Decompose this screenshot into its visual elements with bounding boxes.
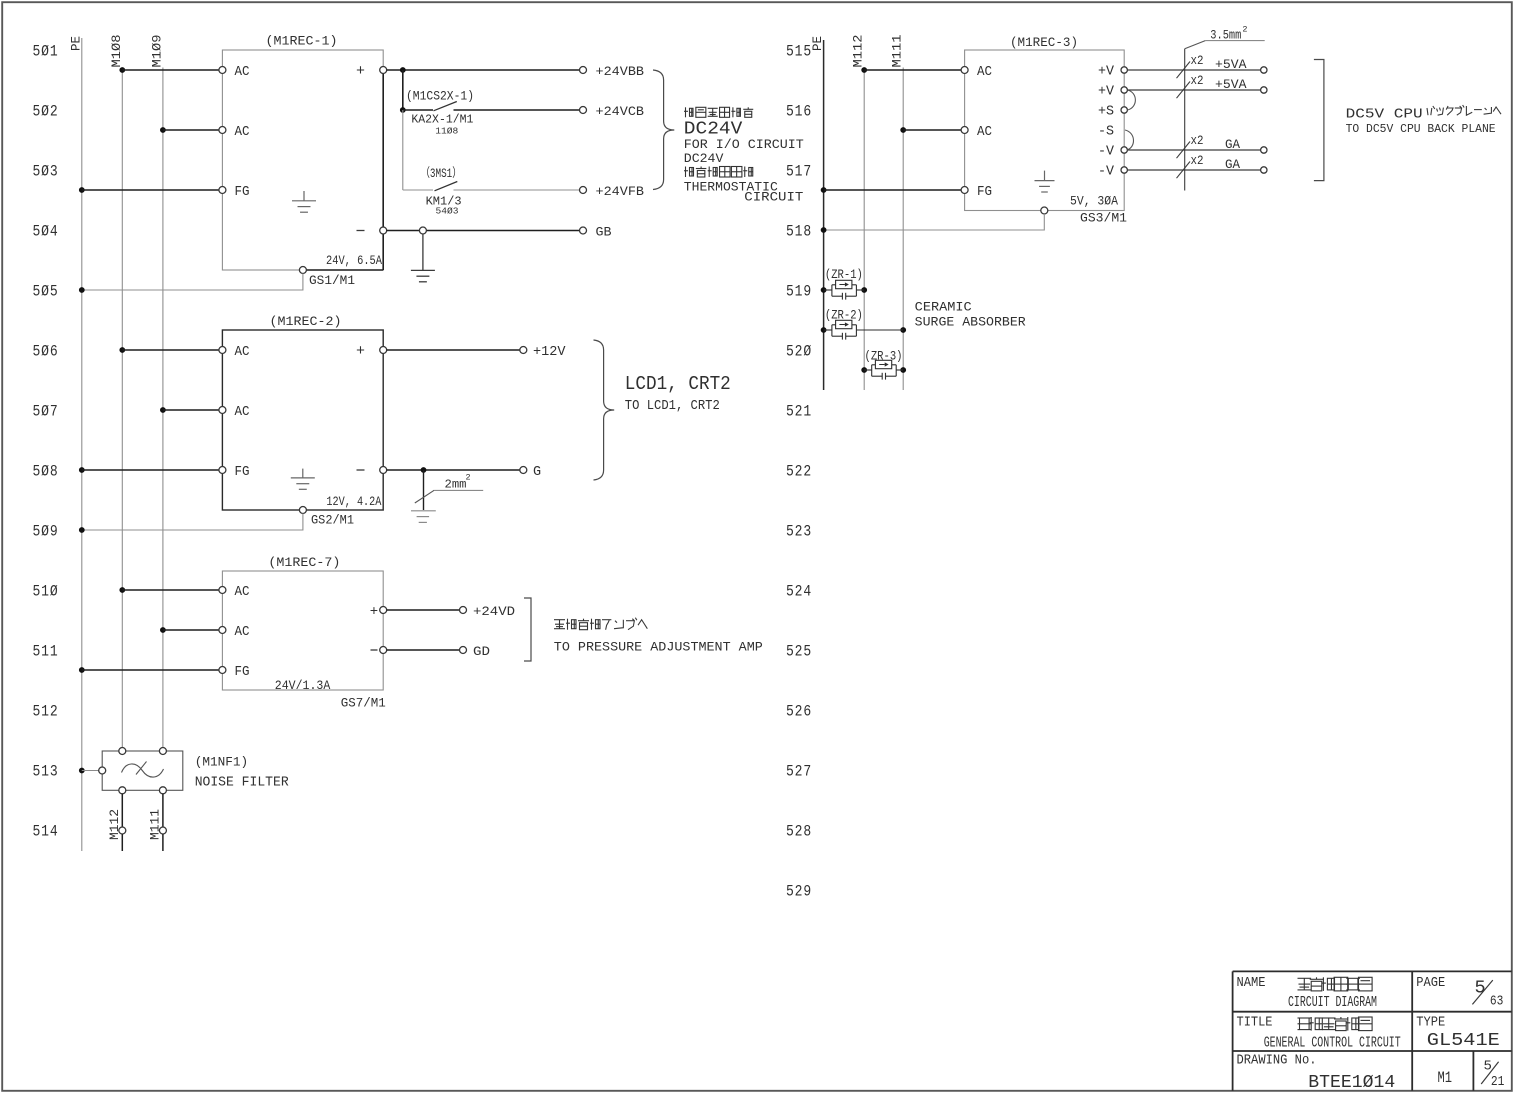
svg-text:NOISE FILTER: NOISE FILTER [195,776,289,791]
svg-text:+5VA: +5VA [1215,57,1247,72]
svg-text:521: 521 [786,403,812,421]
svg-text:TO PRESSURE ADJUSTMENT AMP: TO PRESSURE ADJUSTMENT AMP [554,640,763,655]
svg-text:GA: GA [1225,157,1240,172]
svg-text:AC: AC [235,345,250,360]
svg-text:526: 526 [786,703,812,721]
svg-text:（3MS1）: （3MS1） [421,166,462,181]
svg-text:5Ø8: 5Ø8 [33,463,59,481]
svg-text:AC: AC [235,625,250,640]
svg-text:5V, 3ØA: 5V, 3ØA [1070,194,1118,208]
svg-text:528: 528 [786,823,812,841]
svg-text:x2: x2 [1191,73,1204,88]
svg-text:525: 525 [786,643,812,661]
svg-text:5Ø9: 5Ø9 [33,523,59,541]
svg-text:AC: AC [977,65,992,80]
svg-text:PE: PE [69,36,83,51]
svg-text:+V: +V [1098,85,1115,100]
svg-text:-V: -V [1098,165,1115,180]
svg-text:512: 512 [33,703,59,721]
svg-text:x2: x2 [1191,53,1204,68]
svg-text:BTEE1Ø14: BTEE1Ø14 [1308,1073,1395,1093]
svg-text:M111: M111 [891,35,905,68]
svg-text:5Ø6: 5Ø6 [33,343,59,361]
svg-text:529: 529 [786,883,812,901]
svg-text:54Ø3: 54Ø3 [436,206,459,217]
svg-text:2mm: 2mm [445,478,467,492]
svg-text:(M1REC-3): (M1REC-3) [1010,35,1078,50]
svg-text:M1: M1 [1438,1069,1453,1087]
svg-text:2: 2 [466,473,471,483]
svg-text:AC: AC [235,65,250,80]
svg-text:5Ø3: 5Ø3 [33,163,59,181]
svg-text:+24VFB: +24VFB [596,184,645,199]
svg-text:523: 523 [786,523,812,541]
svg-text:DC24V: DC24V [684,151,724,166]
svg-text:5Ø1: 5Ø1 [33,43,59,61]
svg-text:GD: GD [473,645,490,659]
svg-text:DRAWING No.: DRAWING No. [1237,1054,1317,1069]
svg-text:GS1/M1: GS1/M1 [309,274,355,288]
svg-text:x2: x2 [1191,133,1204,148]
svg-text:SURGE ABSORBER: SURGE ABSORBER [915,315,1026,330]
svg-text:24V, 6.5A: 24V, 6.5A [326,254,382,268]
svg-text:517: 517 [786,163,812,181]
svg-text:518: 518 [786,223,812,241]
svg-text:FG: FG [977,185,992,200]
svg-text:TITLE: TITLE [1237,1016,1273,1031]
svg-text:63: 63 [1490,995,1504,1010]
svg-text:NAME: NAME [1237,976,1266,991]
svg-text:M111: M111 [148,809,162,840]
svg-text:M1Ø8: M1Ø8 [110,35,124,68]
svg-text:CIRCUIT DIAGRAM: CIRCUIT DIAGRAM [1288,995,1377,1011]
svg-text:(M1REC-7): (M1REC-7) [268,555,340,570]
svg-text:527: 527 [786,763,812,781]
svg-text:11Ø8: 11Ø8 [435,126,458,137]
svg-text:519: 519 [786,283,812,301]
svg-text:-V: -V [1098,145,1115,160]
svg-text:+5VA: +5VA [1215,77,1247,92]
svg-text:CIRCUIT: CIRCUIT [744,190,803,205]
svg-text:+24VCB: +24VCB [596,104,645,119]
svg-text:5Ø2: 5Ø2 [33,103,59,121]
svg-text:51Ø: 51Ø [33,583,59,601]
svg-text:515: 515 [786,43,812,61]
svg-text:M1Ø9: M1Ø9 [150,35,164,68]
svg-text:21: 21 [1491,1075,1505,1090]
svg-text:GA: GA [1225,137,1240,152]
svg-text:+V: +V [1098,65,1115,80]
svg-text:GS7/M1: GS7/M1 [341,697,386,711]
svg-text:FG: FG [235,465,250,480]
svg-text:5Ø5: 5Ø5 [33,283,59,301]
svg-text:5Ø7: 5Ø7 [33,403,59,421]
svg-text:+24VD: +24VD [473,605,515,619]
svg-text:24V/1.3A: 24V/1.3A [275,679,331,693]
svg-text:TO DC5V CPU BACK PLANE: TO DC5V CPU BACK PLANE [1346,123,1496,136]
svg-text:CERAMIC: CERAMIC [915,300,972,315]
svg-text:KA2X-1/M1: KA2X-1/M1 [411,113,473,127]
svg-text:AC: AC [235,585,250,600]
svg-text:DC5V CPU: DC5V CPU [1346,107,1423,123]
svg-text:+: + [356,63,365,80]
svg-text:PAGE: PAGE [1416,976,1445,991]
svg-text:516: 516 [786,103,812,121]
svg-text:GS2/M1: GS2/M1 [311,514,354,528]
svg-text:GENERAL CONTROL CIRCUIT: GENERAL CONTROL CIRCUIT [1264,1036,1401,1052]
svg-text:524: 524 [786,583,812,601]
svg-text:52Ø: 52Ø [786,343,812,361]
svg-text:(M1NF1): (M1NF1) [195,755,249,770]
svg-text:+S: +S [1098,105,1114,120]
svg-text:511: 511 [33,643,59,661]
svg-text:G: G [533,465,541,480]
svg-text:M112: M112 [852,35,866,68]
svg-text:FOR I/O CIRCUIT: FOR I/O CIRCUIT [684,137,804,152]
svg-text:(M1REC-1): (M1REC-1) [266,34,338,49]
svg-text:(M1CS2X-1): (M1CS2X-1) [406,90,474,104]
svg-text:2: 2 [1242,25,1247,35]
svg-text:GL541E: GL541E [1427,1030,1500,1051]
svg-text:GS3/M1: GS3/M1 [1080,212,1127,226]
svg-text:+: + [370,604,378,620]
svg-text:PE: PE [811,36,825,51]
svg-text:-S: -S [1098,125,1114,140]
svg-text:TO LCD1, CRT2: TO LCD1, CRT2 [625,399,720,414]
svg-text:(M1REC-2): (M1REC-2) [270,314,342,329]
svg-text:514: 514 [33,823,59,841]
svg-text:AC: AC [977,125,992,140]
svg-text:TYPE: TYPE [1416,1016,1445,1031]
svg-text:12V, 4.2A: 12V, 4.2A [326,495,381,509]
svg-text:AC: AC [235,405,250,420]
svg-text:x2: x2 [1191,153,1204,168]
svg-text:+12V: +12V [533,345,566,360]
svg-text:513: 513 [33,763,59,781]
svg-text:LCD1, CRT2: LCD1, CRT2 [625,373,731,395]
svg-text:GB: GB [596,224,612,239]
svg-text:AC: AC [235,125,250,140]
svg-text:FG: FG [235,665,250,680]
svg-text:5Ø4: 5Ø4 [33,223,59,241]
svg-text:FG: FG [235,185,250,200]
svg-text:+: + [356,343,365,360]
svg-text:+24VBB: +24VBB [596,64,645,79]
svg-text:M112: M112 [108,809,122,840]
svg-text:522: 522 [786,463,812,481]
